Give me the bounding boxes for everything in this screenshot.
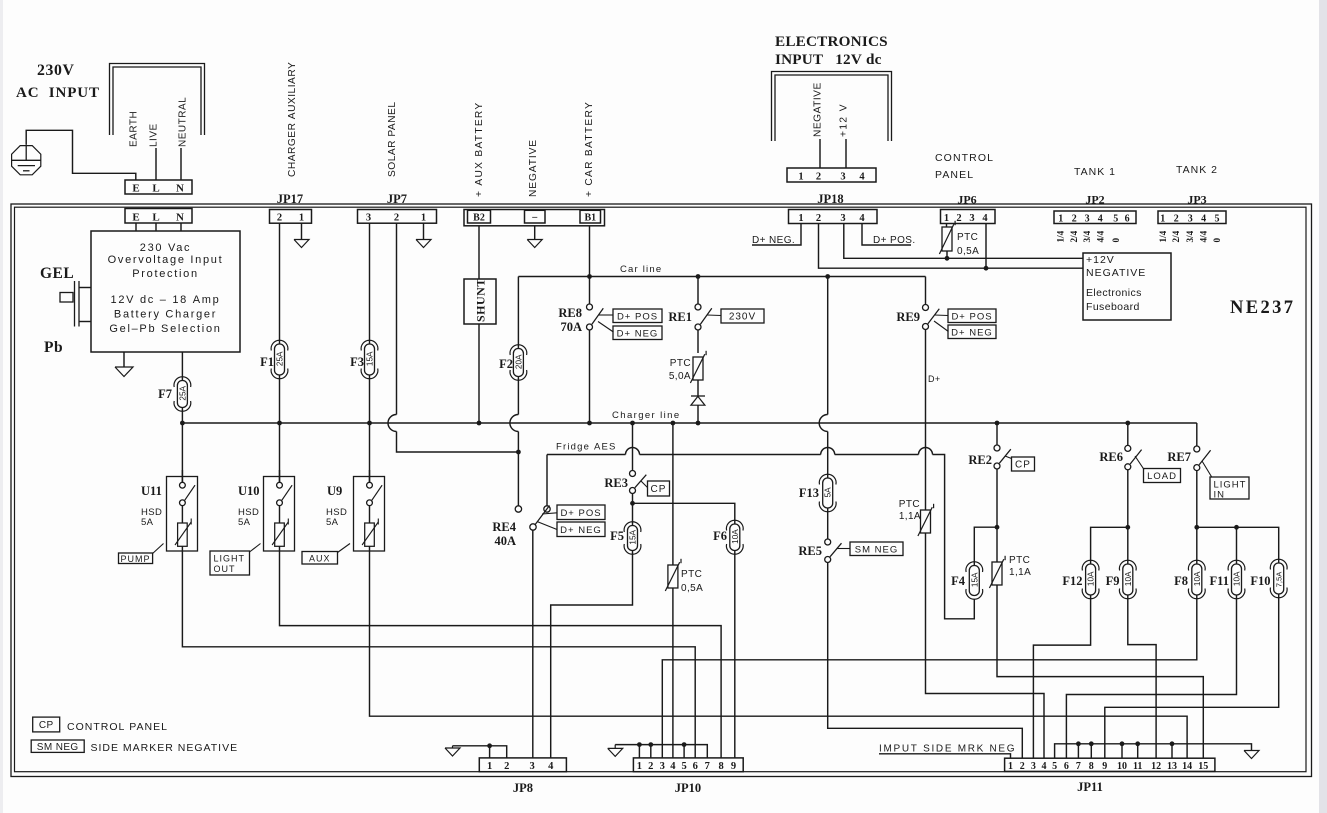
svg-text:2/4: 2/4: [1069, 230, 1079, 242]
svg-text:CP: CP: [651, 484, 667, 495]
svg-text:5A: 5A: [238, 517, 251, 528]
wire JP10 ground rail: [615, 745, 707, 758]
wire F7 to charger bus: [181, 408, 183, 424]
label box SM NEG at RE5: [850, 542, 903, 556]
relay RE8: [587, 304, 593, 310]
wire F8 to JP10 pin3: [662, 595, 1197, 758]
junction charger RE8: [587, 421, 592, 426]
svg-text:EARTH: EARTH: [129, 111, 140, 147]
svg-text:F8: F8: [1174, 574, 1188, 588]
electronics input connector shell: [772, 72, 892, 142]
svg-text:Fridge AES: Fridge AES: [556, 442, 617, 453]
svg-text:Pb: Pb: [44, 339, 63, 356]
svg-text:SHUNT: SHUNT: [474, 278, 488, 322]
junction charger shunt: [477, 421, 482, 426]
svg-text:10A: 10A: [731, 529, 740, 544]
svg-text:2: 2: [277, 213, 282, 224]
wire F12 to JP11 pin3: [1033, 595, 1090, 758]
svg-text:B2: B2: [473, 213, 485, 224]
svg-text:D+ POS: D+ POS: [560, 508, 601, 519]
fuse F13 5A: [823, 478, 833, 508]
wire F10 to JP11 pin9: [1105, 594, 1279, 758]
wire F3 to charger bus: [369, 375, 371, 423]
svg-text:5A: 5A: [326, 517, 339, 528]
junction JP10 pin5 ground: [682, 742, 687, 747]
svg-text:3: 3: [840, 172, 845, 183]
junction JP11 pin13 ground: [1170, 741, 1175, 746]
leader RE4 to D+ POS: [542, 513, 557, 514]
wire F2 hop over charger bus to fridge junction: [517, 377, 519, 415]
thermistor PTC 5,0A: [693, 357, 703, 380]
svg-text:5A: 5A: [824, 487, 833, 498]
leader LIGHT OUT to U10: [250, 544, 261, 553]
label box LOAD at RE6: [1144, 469, 1181, 483]
svg-text:2: 2: [1020, 761, 1025, 772]
svg-text:15A: 15A: [629, 529, 638, 544]
leader AUX to U9: [338, 544, 351, 553]
wire PTC lower to JP10 pin4: [672, 588, 674, 758]
svg-text:10A: 10A: [1193, 571, 1202, 586]
svg-text:10: 10: [1117, 761, 1127, 772]
svg-text:7,5A: 7,5A: [1275, 571, 1284, 588]
svg-text:JP18: JP18: [817, 192, 843, 206]
svg-text:F6: F6: [713, 529, 727, 543]
ground JP8: [445, 748, 460, 756]
wire F11 to JP11 pin6: [1066, 595, 1236, 758]
leader RE7 to LIGHT IN box: [1202, 461, 1212, 478]
wire F6 to JP10 pin9: [734, 551, 736, 758]
leader RE6 to LOAD box: [1135, 456, 1144, 470]
svg-text:2: 2: [648, 761, 653, 772]
svg-text:9: 9: [1102, 761, 1107, 772]
wire RE3 junction to F6: [633, 503, 735, 524]
wire PTC to diode: [697, 380, 699, 396]
svg-text:2/4: 2/4: [1171, 230, 1181, 242]
svg-text:–: –: [531, 212, 538, 223]
connector JP10: [633, 758, 743, 772]
terminal box E L N lower: [125, 209, 192, 224]
label box D+ NEG at RE4: [557, 522, 605, 537]
svg-text:1: 1: [798, 172, 803, 183]
svg-text:25A: 25A: [276, 351, 285, 366]
fuse F11 10A: [1232, 564, 1242, 595]
svg-text:CONTROL: CONTROL: [935, 152, 994, 164]
wire RE7 to fuse rail: [1196, 471, 1198, 564]
junction charger RE3: [630, 421, 635, 426]
svg-text:4: 4: [1201, 214, 1206, 225]
svg-text:SIDE MARKER NEGATIVE: SIDE MARKER NEGATIVE: [91, 742, 239, 754]
svg-text:70A: 70A: [560, 320, 582, 334]
wire JP7 pin1 to ground: [423, 223, 425, 239]
wire RE6 to fuse rail: [1127, 470, 1129, 564]
svg-text:INPUT 12V dc: INPUT 12V dc: [775, 51, 882, 68]
svg-text:NEUTRAL: NEUTRAL: [178, 97, 189, 147]
label box LIGHT OUT at U10: [210, 551, 250, 575]
junction JP8 pin1 ground: [487, 743, 492, 748]
junction RE7 rail: [1194, 525, 1199, 530]
junction JP10 pin1 ground: [637, 742, 642, 747]
wire fridge line to RE4 throw: [546, 455, 548, 506]
wire B1 to car line: [589, 226, 591, 277]
svg-text:2: 2: [1072, 214, 1077, 225]
svg-text:4: 4: [670, 761, 676, 772]
fuse F2 20A: [513, 349, 523, 377]
fuse F7 25A: [177, 381, 187, 408]
svg-text:LIVE: LIVE: [149, 123, 160, 147]
svg-text:F9: F9: [1106, 574, 1120, 588]
svg-text:F2: F2: [499, 357, 513, 371]
wire F1 to charger bus: [279, 375, 281, 423]
electronics fuseboard box: [1083, 253, 1171, 320]
wire charger bus to RE2: [996, 423, 998, 445]
wire F2 junction to RE4 common: [517, 452, 519, 506]
earth electrode symbol: [12, 146, 41, 175]
wire B2 to shunt: [478, 226, 480, 279]
svg-text:B1: B1: [584, 213, 596, 224]
svg-text:4: 4: [982, 213, 988, 224]
svg-text:3/4: 3/4: [1185, 230, 1195, 242]
wire JP17 pin1 to ground: [301, 223, 303, 239]
svg-text:L: L: [152, 183, 159, 195]
svg-text:AUX: AUX: [309, 553, 331, 563]
svg-text:3: 3: [969, 213, 974, 224]
svg-text:5A: 5A: [141, 517, 154, 528]
wire JP17 pin2 to F1: [279, 223, 281, 344]
wire charger bus to U11: [181, 423, 183, 482]
svg-text:D+ NEG: D+ NEG: [951, 327, 993, 338]
junction fridge left line: [516, 450, 521, 455]
svg-text:6: 6: [693, 761, 698, 772]
ground JP17 pin1: [294, 240, 309, 248]
relay RE1: [695, 304, 701, 310]
svg-text:F5: F5: [610, 529, 624, 543]
ground JP11: [1244, 751, 1259, 759]
svg-text:D+ POS.: D+ POS.: [873, 235, 916, 246]
svg-text:6: 6: [1064, 761, 1069, 772]
svg-text:NEGATIVE: NEGATIVE: [528, 139, 539, 197]
fuse F9 10A: [1123, 564, 1133, 595]
wire RE7 rail to F11 F10: [1197, 527, 1279, 563]
wire negative terminal to ground: [534, 226, 536, 240]
junction charger PTC 0,5A branch: [671, 421, 676, 426]
svg-text:9: 9: [731, 761, 736, 772]
junction RE6 rail: [1125, 525, 1130, 530]
wire NEUTRAL to N terminal: [180, 148, 182, 180]
wire JP6 pin1 to PTC: [946, 224, 948, 228]
svg-text:230V: 230V: [37, 62, 75, 79]
driver U9: [354, 477, 385, 552]
relay RE4 contacts: [515, 506, 521, 512]
wire JP7 pin2 solar with hop to fridge line: [396, 223, 398, 414]
svg-text:RE8: RE8: [558, 306, 582, 320]
svg-text:PTC: PTC: [1009, 555, 1030, 566]
svg-text:F7: F7: [158, 387, 172, 401]
svg-text:1,1A: 1,1A: [899, 511, 921, 522]
wire U11 to JP10 pin6: [182, 551, 695, 758]
wire JP6 pin4 to NEGATIVE line: [985, 224, 987, 269]
svg-text:Gel–Pb Selection: Gel–Pb Selection: [109, 323, 221, 335]
svg-text:F11: F11: [1210, 574, 1229, 588]
junction charger F3: [367, 421, 372, 426]
label box D+ POS at RE9: [948, 309, 996, 323]
svg-text:JP11: JP11: [1077, 780, 1103, 794]
fuse F12 10A: [1086, 564, 1096, 595]
svg-text:SM NEG: SM NEG: [855, 544, 898, 555]
svg-text:5: 5: [1215, 214, 1220, 225]
wire rail to F11: [1236, 527, 1238, 564]
label box D+ POS at RE8: [613, 309, 662, 323]
svg-text:NEGATIVE: NEGATIVE: [813, 82, 824, 137]
svg-text:E: E: [132, 212, 139, 224]
svg-text:0: 0: [1212, 238, 1222, 243]
svg-text:7: 7: [705, 761, 710, 772]
thermistor PTC 1,1A left: [921, 510, 931, 533]
svg-text:NE237: NE237: [1230, 298, 1295, 318]
drawing frame border: [11, 204, 1312, 777]
svg-text:F1: F1: [260, 355, 274, 369]
svg-text:F10: F10: [1250, 574, 1270, 588]
leader RE3 to CP box: [641, 481, 648, 488]
label box CP at RE3: [648, 481, 670, 496]
page edge strips: [0, 0, 3, 813]
ground charger box: [115, 367, 133, 377]
svg-text:4: 4: [548, 761, 554, 772]
svg-text:3: 3: [840, 213, 845, 224]
wire JP18 pin3 +12V line to fuseboard: [844, 224, 1083, 259]
connector JP3: [1158, 211, 1226, 224]
svg-text:10A: 10A: [1087, 571, 1096, 586]
svg-text:2: 2: [1174, 214, 1179, 225]
ground JP10: [608, 748, 623, 756]
svg-text:13: 13: [1167, 761, 1177, 772]
svg-text:JP2: JP2: [1085, 193, 1104, 207]
svg-text:RE1: RE1: [668, 310, 692, 324]
svg-text:JP7: JP7: [387, 192, 407, 206]
svg-text:3: 3: [1188, 214, 1193, 225]
wire car line corner to RE9: [925, 277, 927, 305]
junction JP10 pin2 ground: [648, 742, 653, 747]
wire U10 to JP10 pin8: [280, 551, 722, 758]
wire charger box to F7: [181, 352, 183, 381]
wire diode to charger bus: [697, 405, 699, 423]
wire car line to F2: [517, 277, 519, 349]
fuse F8 10A: [1192, 564, 1202, 595]
svg-text:15: 15: [1198, 761, 1208, 772]
svg-text:1: 1: [1058, 214, 1063, 225]
svg-text:TANK 2: TANK 2: [1176, 164, 1218, 176]
fuse F1 25A: [275, 344, 285, 375]
fuse F10 7,5A: [1274, 563, 1284, 594]
wire F9 to JP11 pin12: [1128, 595, 1156, 758]
junction JP11 pin10 ground: [1120, 741, 1125, 746]
svg-text:RE5: RE5: [798, 544, 822, 558]
svg-text:3: 3: [660, 761, 665, 772]
svg-text:RE4: RE4: [492, 520, 516, 534]
wire car line to RE1: [697, 277, 699, 304]
relay RE2: [994, 445, 1000, 451]
thermistor PTC 1,1A right: [992, 562, 1002, 585]
wire charger bus corner to RE7: [1196, 423, 1198, 446]
leader RE4 to D+ NEG: [537, 522, 557, 530]
connector JP18: [789, 210, 878, 224]
leader PUMP to U11: [153, 544, 164, 554]
svg-text:E: E: [132, 183, 139, 195]
junction charger F1: [277, 421, 282, 426]
svg-text:1: 1: [1160, 214, 1165, 225]
svg-text:JP10: JP10: [675, 781, 701, 795]
wire charger bus to U9: [369, 423, 371, 482]
junction car line F13 branch: [825, 274, 830, 279]
relay RE9: [923, 305, 929, 311]
wire RE8 to charger bus: [589, 330, 591, 423]
fuse F6 10A: [730, 524, 740, 551]
svg-text:3/4: 3/4: [1082, 230, 1092, 242]
svg-text:1: 1: [637, 761, 642, 772]
svg-text:PANEL: PANEL: [935, 169, 974, 181]
svg-text:2: 2: [816, 172, 821, 183]
svg-text:4: 4: [1042, 761, 1047, 772]
connector JP2: [1054, 211, 1136, 224]
svg-text:RE3: RE3: [604, 476, 628, 490]
svg-text:+ CAR BATTERY: + CAR BATTERY: [584, 101, 595, 197]
junction charger RE6: [1125, 421, 1130, 426]
diode at RE1: [691, 395, 705, 397]
connector JP8: [479, 758, 566, 772]
fuse F4 15A: [969, 566, 979, 596]
svg-text:GEL: GEL: [40, 265, 74, 282]
relay RE3: [630, 471, 636, 477]
wire JP7 pin3 to F3: [369, 223, 371, 344]
junction rail F11: [1234, 525, 1239, 530]
fuse F5 15A: [628, 526, 638, 551]
svg-text:20A: 20A: [514, 354, 523, 369]
svg-text:10A: 10A: [1233, 571, 1242, 586]
svg-text:Fuseboard: Fuseboard: [1086, 301, 1140, 313]
wire RE1 to PTC: [697, 330, 699, 353]
wire RE5 to JP11 pin2: [828, 563, 1023, 759]
svg-text:25A: 25A: [178, 385, 187, 400]
svg-text:CP: CP: [1015, 460, 1031, 471]
svg-text:IMPUT SIDE MRK NEG: IMPUT SIDE MRK NEG: [879, 744, 1016, 755]
fuse F3 15A: [365, 344, 375, 375]
wire U9 to JP11 pin14: [370, 551, 1188, 758]
svg-text:4/4: 4/4: [1095, 230, 1105, 242]
svg-text:IN: IN: [1214, 490, 1226, 501]
wire RE4 down to JP8 pin3: [532, 530, 534, 758]
svg-text:2: 2: [504, 761, 509, 772]
wire RE9 D+ down to PTC: [925, 330, 927, 510]
svg-text:15A: 15A: [366, 351, 375, 366]
svg-text:5: 5: [681, 761, 686, 772]
battery terminal strip: [464, 210, 605, 226]
svg-text:LOAD: LOAD: [1147, 471, 1177, 482]
svg-text:PTC: PTC: [957, 232, 978, 243]
svg-text:D+ NEG.: D+ NEG.: [752, 235, 795, 246]
label box CP at RE2: [1012, 457, 1035, 471]
svg-text:0,5A: 0,5A: [681, 583, 703, 594]
svg-text:4/4: 4/4: [1199, 230, 1209, 242]
svg-text:5,0A: 5,0A: [669, 371, 691, 382]
svg-text:7: 7: [1076, 761, 1081, 772]
connector JP6: [941, 210, 996, 224]
wire RE6 rail to F12: [1091, 527, 1128, 564]
label box D+ NEG at RE9: [948, 325, 996, 339]
wire B1 line to RE8: [589, 277, 591, 304]
svg-text:SOLAR PANEL: SOLAR PANEL: [387, 101, 398, 177]
wire LIVE to L terminal: [155, 148, 157, 180]
svg-text:F13: F13: [799, 486, 819, 500]
leader RE5 to SM NEG box: [837, 548, 851, 550]
svg-text:+ AUX BATTERY: + AUX BATTERY: [474, 102, 485, 198]
svg-text:OUT: OUT: [214, 564, 236, 574]
junction RE3 output: [630, 501, 635, 506]
svg-text:D+ NEG: D+ NEG: [560, 525, 602, 536]
svg-text:14: 14: [1182, 761, 1192, 772]
svg-text:3: 3: [1031, 761, 1036, 772]
label box 230V at RE1: [721, 309, 764, 323]
svg-text:F12: F12: [1062, 574, 1082, 588]
wire charger bus to PTC 0,5A lower: [672, 423, 674, 565]
svg-text:1: 1: [487, 761, 492, 772]
gel-pb selection plug: [60, 293, 73, 303]
shunt: [464, 279, 496, 324]
wire F5 to JP8 pin4: [551, 551, 633, 758]
wires ELN into charger box: [135, 223, 137, 231]
svg-text:1: 1: [798, 213, 803, 224]
junction charger RE1: [696, 421, 701, 426]
svg-text:D+ POS: D+ POS: [617, 311, 658, 322]
svg-text:N: N: [176, 212, 184, 224]
wire +12V to pin3: [845, 139, 847, 168]
svg-text:10A: 10A: [1124, 571, 1133, 586]
svg-text:8: 8: [1089, 761, 1094, 772]
ground negative terminal: [527, 240, 542, 248]
wire PTC to +12V line: [946, 251, 948, 258]
relay RE5: [825, 539, 831, 545]
svg-text:JP6: JP6: [957, 193, 976, 207]
svg-text:ELECTRONICS: ELECTRONICS: [775, 33, 888, 50]
svg-text:LIGHT: LIGHT: [214, 554, 246, 564]
svg-text:D+ NEG: D+ NEG: [617, 328, 659, 339]
svg-text:4: 4: [859, 172, 865, 183]
legend CP box: [33, 717, 60, 732]
svg-text:1: 1: [421, 213, 426, 224]
svg-text:PUMP: PUMP: [121, 554, 151, 564]
connector JP7: [358, 210, 437, 224]
wire side marker negative to JP11 pin1: [879, 754, 1011, 758]
leader RE9 to D+ POS: [935, 314, 949, 317]
label box LIGHT IN at RE7: [1210, 477, 1249, 499]
svg-text:3: 3: [1085, 214, 1090, 225]
svg-text:+12 V: +12 V: [839, 103, 850, 137]
legend SM NEG box: [31, 740, 84, 752]
wire NEGATIVE to pin2: [819, 139, 821, 168]
svg-text:2: 2: [956, 213, 961, 224]
svg-text:230 Vac: 230 Vac: [140, 242, 191, 254]
wire JP18 pin2 NEGATIVE line to fuseboard: [819, 224, 1084, 269]
svg-text:CP: CP: [39, 720, 54, 731]
svg-text:5: 5: [1052, 761, 1057, 772]
label box PUMP at U11: [119, 553, 153, 564]
svg-text:3: 3: [529, 761, 534, 772]
svg-text:PTC: PTC: [670, 358, 691, 369]
leader RE1 to 230V box: [707, 314, 721, 317]
label box D+ NEG at RE8: [613, 326, 662, 340]
wire RE2 PTC to JP11 pin15: [997, 585, 1203, 758]
svg-text:Overvoltage Input: Overvoltage Input: [108, 254, 224, 266]
svg-text:2: 2: [816, 213, 821, 224]
svg-text:+12V: +12V: [1086, 254, 1115, 266]
